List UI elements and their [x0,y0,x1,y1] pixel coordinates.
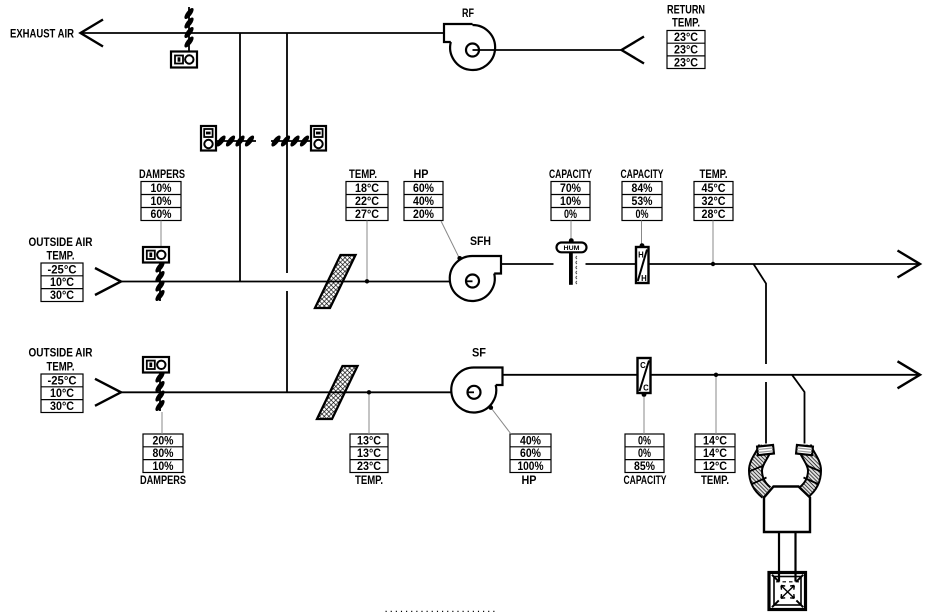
flex left collar band [757,445,774,455]
svg-text:CAPACITY: CAPACITY [549,169,592,181]
svg-text:60%: 60% [151,209,172,221]
svg-text:TEMP.: TEMP. [701,475,729,487]
svg-text:30°C: 30°C [50,290,74,302]
actuator A2 [143,247,169,263]
svg-text:53%: 53% [632,196,653,208]
wire top duct outlet seg2 [586,263,637,265]
svg-text:0%: 0% [636,209,649,221]
node on fan SFH [457,256,462,261]
node temp top outlet [711,262,715,266]
flexible duct right [804,445,815,493]
humidifier HUM [557,238,587,285]
node temp top duct [365,279,369,283]
heating coil H [636,243,649,283]
value box outside air temp top [41,263,83,302]
svg-text:HUM: HUM [564,245,580,252]
svg-text:SFH: SFH [470,236,491,248]
svg-text:23°C: 23°C [674,32,698,44]
svg-text:18°C: 18°C [355,183,379,195]
wire bottom duct outlet seg1 [503,374,638,376]
svg-text:28°C: 28°C [702,209,726,221]
svg-text:CAPACITY: CAPACITY [624,475,667,487]
svg-text:TEMP.: TEMP. [672,18,700,30]
svg-text:TEMP.: TEMP. [349,169,377,181]
svg-text:-25°C: -25°C [48,264,77,276]
leader capacity bottom to coil C [643,397,645,435]
svg-text:40%: 40% [413,196,434,208]
svg-text:14°C: 14°C [703,435,727,447]
damper D3 [271,140,311,142]
HX narrow duct [778,532,780,573]
leader capacity1 to humidifier [570,221,572,241]
svg-text:0%: 0% [564,209,577,221]
value box hp top [404,182,443,221]
svg-text:C: C [643,384,649,393]
actuator A-D2 [201,126,216,151]
flexible duct left [756,445,767,493]
svg-text:30°C: 30°C [50,401,74,413]
actuator A3 [143,357,169,373]
node temp bottom duct [367,390,371,394]
svg-text:27°C: 27°C [355,209,379,221]
svg-text:85%: 85% [634,461,655,473]
leader temp box to duct [366,221,368,281]
svg-text:13°C: 13°C [357,448,381,460]
svg-text:H: H [641,274,647,283]
leader dampers box to actuator [160,221,162,248]
flex right collar band [796,445,813,455]
svg-text:TEMP.: TEMP. [700,169,728,181]
value box hp bottom [510,434,551,473]
wire vertical recirculation line 1 [239,33,241,282]
filter F1 [315,255,356,308]
value box outside air temp bottom [41,374,83,413]
svg-text:HP: HP [522,475,537,487]
svg-text:84%: 84% [632,183,653,195]
exhaust arrow [81,20,104,47]
svg-text:CAPACITY: CAPACITY [621,169,664,181]
svg-text:RF: RF [462,8,474,20]
fan SF [451,367,502,412]
wire SF hub stub [468,391,475,393]
damper D1 blades [183,7,195,49]
svg-text:12°C: 12°C [703,461,727,473]
svg-text:32°C: 32°C [702,196,726,208]
svg-text:H: H [638,251,644,260]
wire bottom duct outlet seg2 [651,374,921,376]
svg-text:DAMPERS: DAMPERS [140,475,186,487]
flex left segment dividers [749,466,767,485]
value box capacity 2 [622,182,662,221]
svg-text:HP: HP [414,169,429,181]
value box temp supply-mid [346,182,388,221]
wire branch top to HX [754,264,767,364]
svg-text:23°C: 23°C [674,45,698,57]
wire RF outlet [473,49,622,51]
svg-text:10%: 10% [151,196,172,208]
value box temp bottom right [695,434,735,473]
supply arrow bottom [898,361,921,388]
svg-text:45°C: 45°C [702,183,726,195]
leader dampers bottom [161,412,163,434]
svg-text:20%: 20% [413,209,434,221]
value box temp bottom mid [350,434,388,473]
HX funnel box [764,487,810,533]
leader temp bottom mid [368,394,370,435]
value box dampers top [141,182,181,221]
svg-text:20%: 20% [153,435,174,447]
wire SFH hub stub [466,280,473,282]
svg-text:EXHAUST AIR: EXHAUST AIR [10,29,75,41]
value box dampers bottom [143,434,183,473]
svg-text:70%: 70% [560,183,581,195]
svg-text:OUTSIDE AIR: OUTSIDE AIR [29,237,94,249]
value box capacity 1 [551,182,590,221]
value box return temp [667,31,705,69]
wire vertical recirculation line 2 [286,33,288,273]
svg-text:60%: 60% [520,448,541,460]
damper D1 stem [188,7,190,52]
value box capacity bottom [625,434,664,473]
svg-text:0%: 0% [638,448,651,460]
cooling coil C [638,358,651,397]
svg-text:RETURN: RETURN [667,5,705,17]
svg-text:C: C [640,361,646,370]
svg-text:TEMP.: TEMP. [47,251,75,263]
svg-text:OUTSIDE AIR: OUTSIDE AIR [29,348,94,360]
svg-text:100%: 100% [518,461,544,473]
svg-text:60%: 60% [413,183,434,195]
svg-text:40%: 40% [520,435,541,447]
wire top duct outlet seg1 [501,263,554,265]
wire top duct outlet seg3 [649,263,920,265]
wire exhaust duct line [81,32,445,34]
svg-text:10%: 10% [151,183,172,195]
actuator A1 [171,52,197,68]
leader hp bottom to fan SF [492,409,512,435]
svg-text:DAMPERS: DAMPERS [139,169,185,181]
fan RF [444,24,495,70]
svg-text:10%: 10% [560,196,581,208]
leader temp bottom right to duct [715,376,717,434]
filter F2 [317,366,358,419]
svg-text:10°C: 10°C [50,277,74,289]
outside air arrow bottom [95,379,121,406]
svg-text:-25°C: -25°C [48,375,77,387]
damper D2 [216,140,256,142]
damper D4 [159,263,161,302]
leader temp box to top duct [712,221,714,264]
svg-text:TEMP.: TEMP. [355,475,383,487]
leader capacity2 to coil H [641,221,643,245]
svg-text:23°C: 23°C [674,57,698,69]
value box temp supply top [694,182,733,221]
svg-text:23°C: 23°C [357,461,381,473]
flex right segment dividers [804,466,822,485]
svg-text:TEMP.: TEMP. [47,362,75,374]
svg-text:14°C: 14°C [703,448,727,460]
fan SFH [450,256,501,301]
svg-text:SF: SF [472,348,486,360]
actuator A-D3 [311,126,326,151]
svg-text:13°C: 13°C [357,435,381,447]
supply arrow top [898,251,921,278]
svg-text:10°C: 10°C [50,388,74,400]
wire top duct inlet [121,281,473,283]
leader hp box to fan SFH [441,221,459,258]
svg-text:. . . . . . . . . . . . . . .: . . . . . . . . . . . . . . . . . . . . … [385,605,495,613]
wire branch bottom to HX [792,375,805,444]
node on fan SF [489,405,494,410]
wire bottom duct inlet [121,391,474,393]
svg-text:80%: 80% [153,448,174,460]
outside air arrow top [95,268,121,295]
svg-text:10%: 10% [153,461,174,473]
svg-text:22°C: 22°C [355,196,379,208]
node temp bottom outlet [714,373,718,377]
damper D5 [159,373,161,412]
svg-text:0%: 0% [638,435,651,447]
return air arrow [622,37,645,64]
HX bottom unit [769,573,806,610]
